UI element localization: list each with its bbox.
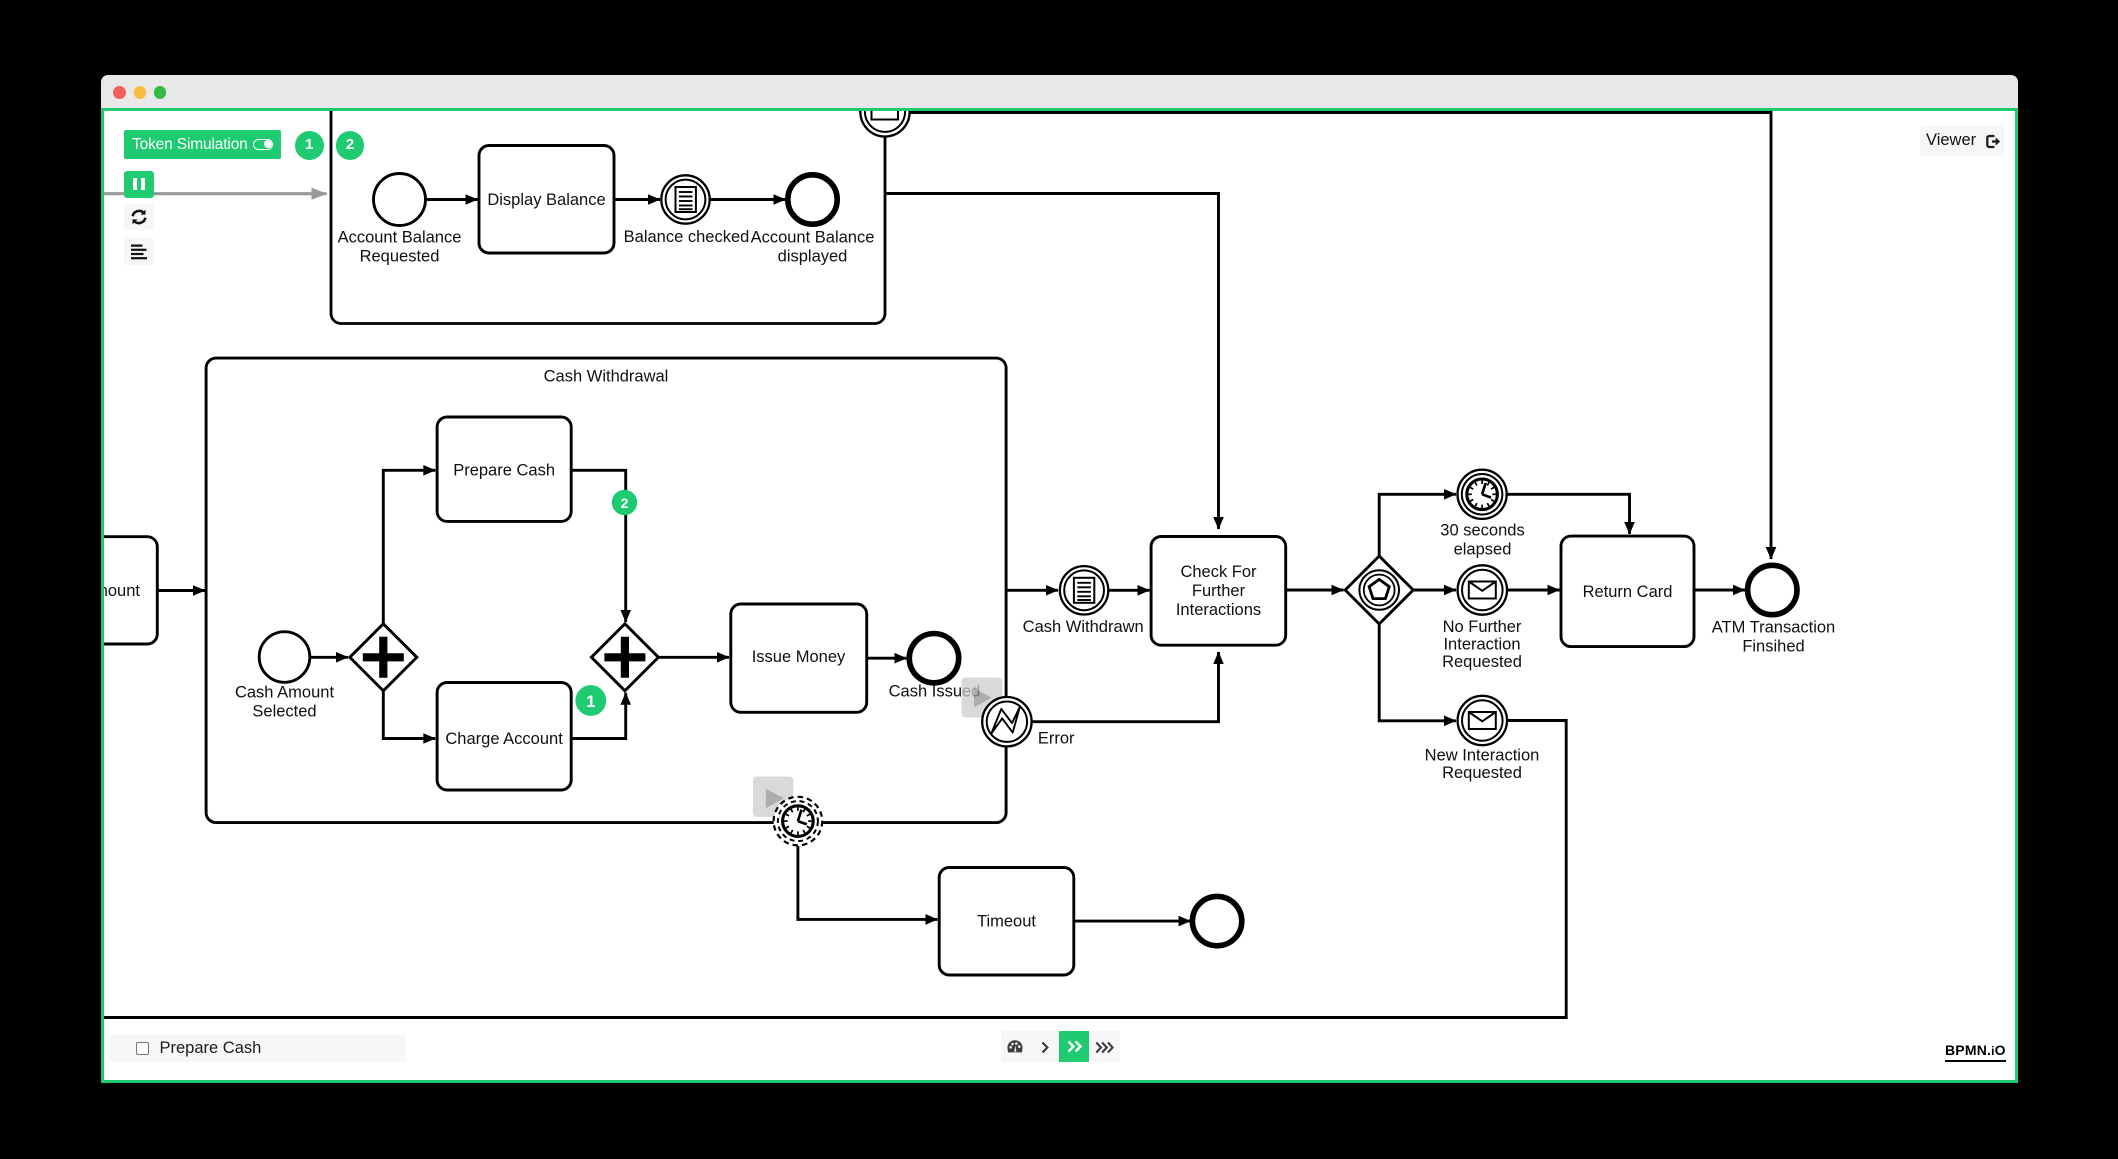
svg-text:Account Balance: Account Balance <box>337 228 461 246</box>
Token Simulation toggle button <box>124 130 281 159</box>
boundary error event on subprocess right edge <box>982 697 1031 746</box>
svg-text:Cash Amount: Cash Amount <box>234 683 333 701</box>
svg-text:Return Card: Return Card <box>1582 583 1672 601</box>
svg-text:Error: Error <box>1037 729 1074 747</box>
task Check For Further Interactions <box>1151 536 1286 645</box>
speedometer icon <box>1006 1039 1024 1056</box>
task Enter Amount (clipped at left) <box>22 536 157 643</box>
svg-text:Requested: Requested <box>1442 764 1522 782</box>
simulation play overlay (near boundary timer) <box>752 776 792 816</box>
sequence flow subprocess -> Cash Withdrawn <box>1006 588 1058 591</box>
svg-text:elapsed: elapsed <box>1453 540 1511 558</box>
BPMN.iO logo <box>1945 1042 2006 1062</box>
sequence flow top subprocess -> Check For Further Interactions <box>885 193 1219 529</box>
sequence flow gateway2 -> Issue Money <box>658 655 729 658</box>
traffic light red <box>113 86 126 99</box>
task Timeout <box>939 867 1074 975</box>
pause button <box>124 171 153 198</box>
svg-text:Issue Money: Issue Money <box>751 648 845 666</box>
green fast-forward button <box>1059 1031 1089 1062</box>
svg-text:Charge Account: Charge Account <box>445 730 563 748</box>
top subprocess (Display Balance container) <box>331 86 885 323</box>
sequence flow start -> Display Balance <box>426 198 478 201</box>
sequence flow boundary message -> ATM end event <box>910 112 1771 559</box>
svg-text:Check For: Check For <box>1180 563 1257 581</box>
gray incoming sequence flow (left, into top subprocess) <box>100 192 326 195</box>
intermediate message event No Further Interaction Requested <box>1457 565 1506 614</box>
sequence flow Balance checked -> Account Balance displayed <box>710 198 786 201</box>
end event ATM Transaction Finsihed <box>1747 565 1796 614</box>
svg-text:Cash Withdrawn: Cash Withdrawn <box>1022 618 1143 636</box>
simulation play overlay (near Cash Issued) <box>961 677 1002 717</box>
refresh (reset) button <box>124 204 153 231</box>
start event Cash Amount Selected <box>259 631 310 682</box>
svg-text:Account Balance: Account Balance <box>750 228 874 246</box>
token count badge 1 <box>295 131 324 160</box>
sequence flow 30 seconds elapsed -> Return Card <box>1506 494 1629 534</box>
log button <box>124 238 153 265</box>
svg-text:ATM Transaction: ATM Transaction <box>1711 618 1834 636</box>
sequence flow Enter Amount -> Cash Withdrawal subprocess <box>157 589 205 592</box>
sequence flow gateway1 -> Prepare Cash <box>383 470 435 624</box>
sequence flow New Interaction Requested -> loop back (off-canvas left) <box>100 720 1566 1017</box>
traffic light yellow <box>134 86 147 99</box>
svg-text:Interaction: Interaction <box>1443 635 1520 653</box>
sequence flow Cash Withdrawn -> Check For Further Interactions <box>1108 588 1149 591</box>
sequence flow boundary timer -> Timeout <box>797 846 937 919</box>
sequence flow error -> Check For Further Interactions <box>1031 652 1218 722</box>
token badge 1 (on Charge Account flow) <box>575 685 606 716</box>
bottom bar: element chip Prepare Cash <box>109 1035 407 1062</box>
browser window <box>101 75 2019 1083</box>
svg-text:Interactions: Interactions <box>1175 601 1260 619</box>
sequence flow gateway -> No Further Interaction Requested <box>1413 588 1456 591</box>
sequence flow Timeout -> end event <box>1073 919 1190 922</box>
token badge 2 (on Prepare Cash flow) <box>611 489 636 514</box>
title bar <box>101 75 2019 108</box>
traffic light green <box>154 86 167 99</box>
green viewport frame <box>101 108 2019 1084</box>
sequence flow Check For Further Interactions -> event gateway <box>1285 588 1343 591</box>
boundary message event (top-right of subprocess) <box>860 87 909 136</box>
sequence flow gateway -> New Interaction Requested <box>1379 624 1456 721</box>
svg-text:1: 1 <box>586 693 595 711</box>
sequence flow start -> parallel gateway 1 <box>310 655 348 658</box>
svg-text:Cash Withdrawal: Cash Withdrawal <box>543 367 668 385</box>
parallel gateway 1 <box>349 623 416 690</box>
sequence flow Issue Money -> Cash Issued <box>866 656 906 659</box>
svg-text:Finsihed: Finsihed <box>1742 637 1804 655</box>
svg-text:Selected: Selected <box>252 702 316 720</box>
intermediate message event New Interaction Requested <box>1457 695 1506 744</box>
svg-text:No Further: No Further <box>1442 617 1521 635</box>
end event (after Timeout) <box>1192 896 1241 945</box>
svg-text:Requested: Requested <box>1442 652 1522 670</box>
diagram canvas <box>104 111 2016 1081</box>
Viewer chip (top right) <box>1920 126 2004 156</box>
svg-text:2: 2 <box>620 495 628 511</box>
sequence flow gateway -> 30 seconds elapsed <box>1379 494 1456 556</box>
intermediate conditional event Balance checked <box>661 175 709 223</box>
sequence flow Charge Account -> parallel gateway 2 <box>571 692 626 738</box>
sequence flow No Further Interaction Requested -> Return Card <box>1507 588 1560 591</box>
svg-text:Balance checked: Balance checked <box>623 228 749 246</box>
svg-text:Timeout: Timeout <box>977 912 1036 930</box>
sequence flow gateway1 -> Charge Account <box>383 690 435 738</box>
parallel gateway 2 <box>591 623 658 690</box>
triple chevron <box>1095 1041 1115 1054</box>
sequence flow Prepare Cash -> parallel gateway 2 <box>571 470 626 622</box>
svg-text:30 seconds: 30 seconds <box>1440 521 1524 539</box>
svg-text:Display Balance: Display Balance <box>487 191 605 209</box>
svg-text:Requested: Requested <box>359 247 439 265</box>
event-based gateway <box>1345 556 1413 624</box>
start event Account Balance Requested <box>373 173 425 225</box>
end event Account Balance displayed <box>787 174 836 223</box>
single chevron <box>1041 1041 1049 1054</box>
intermediate conditional event Cash Withdrawn <box>1059 566 1107 614</box>
subprocess Cash Withdrawal <box>206 358 1006 822</box>
token count badge 2 <box>336 131 365 160</box>
svg-text:Further: Further <box>1191 582 1245 600</box>
svg-text:displayed: displayed <box>777 247 847 265</box>
task Prepare Cash <box>437 417 571 521</box>
task Charge Account <box>437 682 571 790</box>
svg-text:Prepare Cash: Prepare Cash <box>453 461 555 479</box>
boundary timer event (non-interrupting) on subprocess bottom edge <box>773 796 822 845</box>
svg-text:Enter Amount: Enter Amount <box>104 582 140 600</box>
task Display Balance <box>479 145 614 253</box>
bottom center simulation controls <box>1001 1031 1120 1062</box>
task Return Card <box>1561 536 1694 647</box>
end event Cash Issued <box>909 633 958 682</box>
sequence flow Return Card -> ATM end event <box>1694 588 1745 591</box>
sequence flow Display Balance -> Balance checked <box>614 198 660 201</box>
intermediate timer event 30 seconds elapsed <box>1457 469 1506 518</box>
svg-text:New Interaction: New Interaction <box>1424 746 1539 764</box>
task Issue Money <box>730 604 866 712</box>
